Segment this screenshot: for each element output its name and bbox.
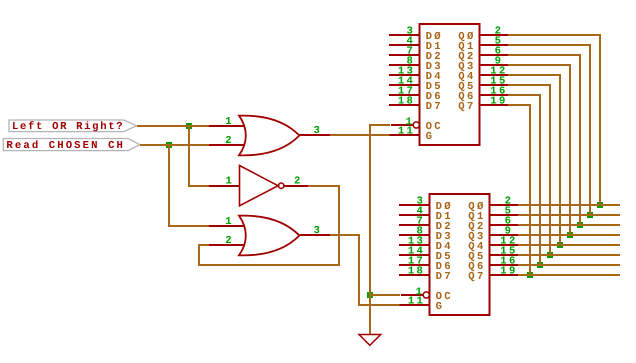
- junction net Q0: [597, 202, 603, 208]
- G2 pin 2 stub: [284, 185, 308, 187]
- U1 pin D0 (pin 3): [389, 26, 441, 43]
- U1 pin Q1 (pin 5): [458, 36, 508, 53]
- junction net B: [166, 142, 172, 148]
- wire net Q6: U1 Q6 to U2 Q6: [508, 95, 620, 265]
- svg-text:G: G: [426, 131, 432, 143]
- U1 body: [420, 24, 480, 145]
- U2 pin D7 (pin 18): [399, 266, 451, 283]
- wire net Q0: U1 Q0 to U2 Q0: [508, 35, 620, 205]
- G3 pin 3 stub: [299, 234, 330, 236]
- U1 pin D4 (pin 13): [389, 66, 441, 83]
- U2 pin Q0 (pin 2): [468, 196, 518, 213]
- G1 body: [239, 116, 299, 156]
- U1 pin D3 (pin 8): [389, 56, 441, 73]
- wire net D: inverter output loop to OR2 pin2: [199, 186, 339, 265]
- junction net F at U2 OC: [367, 292, 373, 298]
- svg-text:2: 2: [225, 135, 231, 147]
- svg-text:1: 1: [225, 216, 231, 228]
- U2 body: [430, 194, 490, 315]
- net F horizontal to U1 OC: [370, 124, 390, 126]
- U2 pin Q3 (pin 9): [468, 226, 518, 243]
- U2 pin Q5 (pin 15): [468, 246, 518, 263]
- U2 pin D3 (pin 8): [399, 226, 451, 243]
- U2 pin D5 (pin 14): [399, 246, 451, 263]
- junction net Q7: [527, 272, 533, 278]
- wire net Q5: U1 Q5 to U2 Q5: [508, 85, 620, 255]
- net label flag "Left OR Right?": [9, 120, 137, 133]
- U1 pin Q4 (pin 12): [458, 66, 508, 83]
- G3 pin 2 stub: [209, 244, 245, 246]
- U1 pin OC (pin 1, inverting): [391, 116, 441, 133]
- U2 pin Q6 (pin 16): [468, 256, 518, 273]
- IC U2 octal buffer: [399, 194, 519, 315]
- U1 pin Q0 (pin 2): [458, 26, 508, 43]
- net F vertical down to ground: [369, 124, 371, 334]
- wire net F: ground rail to OC pins: [367, 124, 400, 334]
- U1 pin D2 (pin 7): [389, 46, 441, 63]
- wire net A: label "Left OR Right?" to OR1 pin1: [137, 125, 210, 127]
- junction net Q5: [547, 252, 553, 258]
- svg-text:G: G: [436, 301, 442, 313]
- wire net Q2: U1 Q2 to U2 Q2: [508, 55, 620, 225]
- junction net Q4: [557, 242, 563, 248]
- wire net B branch: down to OR2 pin1: [169, 145, 209, 226]
- U2 pin D1 (pin 4): [399, 206, 451, 223]
- U1 pin Q5 (pin 15): [458, 76, 508, 93]
- U2 pin Q2 (pin 6): [468, 216, 518, 233]
- U2 pin OC (pin 1, inverting): [401, 286, 451, 303]
- G3 body: [239, 216, 299, 256]
- svg-text:1: 1: [225, 116, 231, 128]
- U2 pin D2 (pin 7): [399, 216, 451, 233]
- net F horizontal to U2 OC: [370, 294, 400, 296]
- wire net Q7: U1 Q7 to U2 Q7: [508, 105, 620, 275]
- svg-text:Left OR Right?: Left OR Right?: [12, 121, 123, 133]
- ground symbol GND: [359, 335, 381, 346]
- svg-text:1: 1: [226, 176, 232, 188]
- U1 pin D5 (pin 14): [389, 76, 441, 93]
- G2 pin 1 stub: [209, 185, 240, 187]
- wire net C: OR1 output to U1 pin G: [330, 134, 390, 136]
- junction net Q6: [537, 262, 543, 268]
- svg-text:2: 2: [225, 235, 231, 247]
- wire net Q4: U1 Q4 to U2 Q4: [508, 75, 620, 245]
- U1 pin D7 (pin 18): [389, 96, 441, 113]
- net label flag "Read CHOSEN CH": [3, 139, 139, 153]
- wire net Q3: U1 Q3 to U2 Q3: [508, 65, 620, 235]
- U2 pin Q7 (pin 19): [468, 266, 518, 283]
- U1 pin Q7 (pin 19): [458, 96, 508, 113]
- G1 pin 3 stub: [299, 134, 330, 136]
- U2 pin D0 (pin 3): [399, 196, 451, 213]
- U1 pin G (pin 11): [390, 126, 432, 144]
- U2 pin Q1 (pin 5): [468, 206, 518, 223]
- or-gate G3: [209, 216, 330, 256]
- G3 pin 1 stub: [209, 225, 245, 227]
- junction net A: [186, 123, 192, 129]
- U2 pin D6 (pin 17): [399, 256, 451, 273]
- U1 pin Q2 (pin 6): [458, 46, 508, 63]
- U2 pin G (pin 11): [400, 296, 442, 314]
- junction net Q1: [587, 212, 593, 218]
- G1 pin 1 stub: [209, 125, 245, 127]
- IC U1 octal buffer: [389, 24, 509, 145]
- G2 body: [240, 166, 279, 206]
- svg-text:3: 3: [314, 225, 320, 237]
- svg-text:3: 3: [314, 125, 320, 137]
- wire net A branch: down to inverter input: [189, 126, 210, 186]
- U2 pin Q4 (pin 12): [468, 236, 518, 253]
- G1 pin 2 stub: [209, 144, 245, 146]
- wire net B: label "Read CHOSEN CH" to OR1 pin2: [140, 144, 210, 146]
- U1 pin Q3 (pin 9): [458, 56, 508, 73]
- wire net Q1: U1 Q1 to U2 Q1: [508, 45, 620, 215]
- svg-text:2: 2: [294, 175, 300, 187]
- wire net E: OR2 output to U2 pin G: [330, 235, 400, 305]
- junction net Q2: [577, 222, 583, 228]
- U1 pin D6 (pin 17): [389, 86, 441, 103]
- U1 pin Q6 (pin 16): [458, 86, 508, 103]
- or-gate G1: [209, 116, 330, 156]
- inverter G2: [209, 166, 308, 206]
- junction net Q3: [567, 232, 573, 238]
- U1 pin D1 (pin 4): [389, 36, 441, 53]
- U2 pin D4 (pin 13): [399, 236, 451, 253]
- G2 output bubble: [279, 183, 284, 188]
